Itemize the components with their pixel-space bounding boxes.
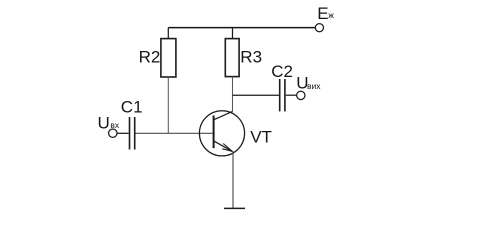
svg-text:Е: Е	[317, 4, 328, 23]
svg-text:C1: C1	[121, 98, 143, 117]
svg-text:вих: вих	[307, 81, 321, 91]
svg-text:R2: R2	[139, 47, 161, 66]
svg-text:VT: VT	[250, 127, 272, 146]
svg-text:U: U	[98, 113, 110, 132]
svg-text:ж: ж	[328, 10, 334, 20]
svg-text:C2: C2	[271, 62, 293, 81]
svg-text:вх: вх	[110, 120, 120, 130]
svg-text:R3: R3	[240, 47, 262, 66]
